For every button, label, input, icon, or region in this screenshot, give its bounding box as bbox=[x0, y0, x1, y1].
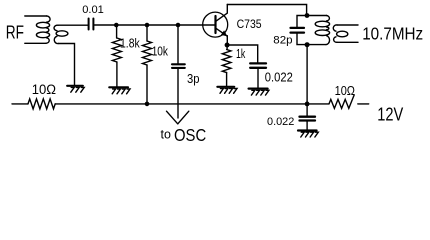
svg-text:1k: 1k bbox=[236, 46, 246, 61]
transformer T2 secondary winding L4 bbox=[333, 25, 358, 42]
svg-text:3p: 3p bbox=[187, 71, 200, 86]
svg-text:RF: RF bbox=[6, 23, 24, 43]
capacitor C2 3p bbox=[172, 25, 185, 118]
svg-text:10.7MHz: 10.7MHz bbox=[362, 23, 423, 43]
ground under C5 bbox=[298, 131, 318, 138]
arrow to OSC bbox=[167, 111, 189, 124]
transformer T1 primary winding L1 bbox=[25, 16, 50, 43]
wire bottom rail left bbox=[12, 103, 28, 105]
svg-text:0.022: 0.022 bbox=[267, 116, 294, 128]
node base-3 bbox=[176, 23, 181, 28]
ground under R1 bbox=[109, 87, 130, 94]
svg-text:82p: 82p bbox=[273, 34, 292, 46]
resistor R1 1.8k bbox=[112, 25, 121, 86]
wire base line bbox=[95, 24, 216, 26]
svg-text:10Ω: 10Ω bbox=[335, 83, 356, 98]
resistor R5 10 ohm bbox=[329, 95, 354, 109]
node base-2 bbox=[145, 23, 150, 28]
wire bottom rail middle bbox=[55, 103, 329, 105]
svg-text:0.022: 0.022 bbox=[265, 70, 293, 85]
node rail tank bbox=[305, 102, 310, 107]
transformer T2 primary winding L3 bbox=[307, 16, 330, 45]
svg-text:to: to bbox=[161, 127, 171, 142]
svg-text:1.8k: 1.8k bbox=[120, 36, 140, 51]
wire rail right end bbox=[358, 103, 369, 105]
ground under C3 bbox=[249, 89, 269, 96]
svg-text:12V: 12V bbox=[377, 104, 404, 125]
capacitor C1 0.01 bbox=[89, 19, 94, 30]
capacitor C5 0.022 bottom bbox=[300, 104, 316, 130]
transistor Q1 bbox=[203, 5, 228, 46]
capacitor C4 82p bbox=[291, 16, 308, 45]
svg-text:10k: 10k bbox=[152, 43, 169, 58]
resistor R3 1k bbox=[222, 45, 231, 86]
transformer T1 secondary winding L2 bbox=[54, 25, 88, 85]
node base-1 bbox=[114, 23, 119, 28]
svg-text:OSC: OSC bbox=[174, 125, 206, 145]
wire emitter to C3 bbox=[227, 45, 258, 62]
svg-text:C735: C735 bbox=[237, 17, 262, 31]
node tank top bbox=[305, 13, 310, 18]
capacitor C3 0.022 bbox=[250, 63, 266, 87]
node emitter bbox=[225, 43, 230, 48]
wire collector to tank top bbox=[227, 5, 306, 16]
svg-text:10Ω: 10Ω bbox=[32, 82, 56, 97]
ground under R3 bbox=[217, 87, 237, 94]
svg-text:0.01: 0.01 bbox=[82, 4, 104, 16]
resistor R4 10 ohm bbox=[28, 99, 55, 109]
node rail R2 bbox=[145, 102, 150, 107]
ground under T1 secondary bbox=[67, 86, 84, 92]
node tank bottom bbox=[305, 42, 310, 47]
resistor R2 10k bbox=[143, 25, 152, 104]
wire tank bottom to rail bbox=[306, 45, 308, 104]
